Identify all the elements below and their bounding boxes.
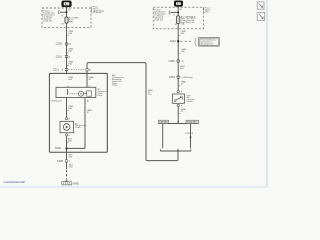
connector C448 (169, 60, 184, 63)
junction node (left) (66, 11, 68, 13)
relay coil circle (79, 91, 84, 96)
wire label ORN 640 (3) (68, 62, 73, 66)
zoom icon 1 (top-right) (257, 2, 264, 9)
svg-text:UB: UB (175, 24, 177, 26)
A/C compressor clutch box (60, 121, 74, 132)
wire label BLK 150 (68, 139, 73, 143)
reference dashes to note (180, 40, 192, 42)
page background (0, 0, 268, 188)
wire battery to fuse block (left) (66, 7, 68, 17)
relay dashed actuator line (69, 93, 77, 95)
relay resistor box (87, 91, 92, 96)
wire fuse to C100 (66, 23, 68, 73)
wire clutch to splice (66, 136, 68, 160)
clutch coil circle (63, 124, 70, 131)
svg-text:C1: C1 (173, 14, 175, 16)
terminal bracket at branch (left) (59, 11, 60, 14)
connector C210 (56, 55, 71, 58)
power distribution note box (199, 38, 220, 47)
wire label ORN 640 (1) (68, 31, 73, 35)
arrow down on right drop (189, 137, 191, 140)
connector C405 (57, 160, 70, 163)
ground bus lower (160, 150, 191, 152)
svg-text:A1: A1 (89, 69, 91, 72)
fuse block name label (left) (93, 7, 105, 15)
right drop wire (190, 124, 192, 149)
jumper wire relay coil to ground bus (long L wire) (87, 63, 178, 161)
jumper wire labels GRA 67 C-8 (148, 89, 153, 96)
svg-text:C211: C211 (53, 69, 59, 72)
fuse block side note text (right) (153, 10, 156, 18)
branch wire to fuse (left) (60, 11, 67, 13)
svg-text:A7: A7 (87, 99, 89, 102)
svg-text:B1: B1 (68, 10, 70, 12)
svg-text:C210: C210 (56, 55, 63, 58)
wire switch to connector bus (177, 107, 179, 124)
coil-wire join to splice (67, 147, 86, 149)
svg-text:40A: 40A (69, 20, 73, 23)
wire fuse to switch (177, 24, 179, 91)
wire to ground (part solid) (66, 162, 68, 169)
svg-text:Switch: Switch (187, 100, 193, 103)
svg-text:(Cell 10): (Cell 10) (43, 20, 52, 22)
wire label BLK 150 (below box) (68, 154, 73, 158)
fuse F2 (right, 10A) (177, 16, 180, 24)
svg-text:1: 1 (69, 161, 70, 163)
connector block left (hatched) (158, 120, 168, 123)
connector bus upper (158, 123, 198, 125)
terminal bracket (right) (169, 11, 170, 14)
connector C100 (56, 43, 71, 46)
ground G305 (62, 180, 72, 186)
svg-text:(C403 Gray): (C403 Gray) (181, 77, 192, 79)
battery feed box (left B+) (62, 1, 71, 7)
fuse value label (69, 17, 80, 24)
svg-text:Wiring Systems: Wiring Systems (200, 42, 213, 45)
junction node (right) (177, 11, 179, 13)
svg-text:(IP): (IP) (205, 12, 209, 14)
underhood fuse block (left dashed box) (42, 8, 91, 27)
svg-text:Clutch: Clutch (75, 126, 82, 129)
battery feed box (right B+) (174, 1, 182, 6)
fuse block name label (right) (205, 8, 211, 14)
in-box wire labels ORN 640 (68, 76, 94, 81)
wire label ORN 640 (right 1) (181, 31, 186, 35)
clutch name label (75, 122, 87, 129)
bottom page edge (0, 186, 268, 188)
branch wire to fuse (right) (170, 11, 178, 13)
relay name label (97, 88, 108, 97)
wire label GRA 67 (below switch) (181, 108, 186, 113)
clutch top pin (65, 118, 67, 120)
A/C compressor assembly box (49, 73, 107, 152)
left drop wire (162, 124, 164, 149)
svg-text:C405: C405 (57, 160, 64, 163)
connector block right (hatched) (186, 120, 199, 123)
svg-text:(Cell 11): (Cell 11) (155, 20, 163, 22)
wire C211 to assembly box (right pin riser) (86, 71, 88, 87)
wire battery to fuse (right) (177, 6, 179, 16)
relay switch bar (67, 89, 69, 95)
svg-text:FreeAutoMechanic.NET: FreeAutoMechanic.NET (4, 180, 26, 184)
switch pin B (177, 90, 179, 92)
splice S110 (177, 40, 179, 42)
wire label ORN 640 (right 3) (180, 66, 185, 70)
zoom icon 2 (top-right) (257, 12, 265, 20)
wire label ORN 640 (2) (68, 49, 73, 53)
coil wire labels GRA 67 (87, 109, 92, 114)
assembly name label (112, 74, 124, 87)
svg-text:C403: C403 (169, 76, 176, 79)
svg-text:S110: S110 (170, 40, 176, 43)
clutch bottom pin (65, 134, 67, 136)
wire label GRA 67 (right) (181, 80, 186, 85)
fuse block side note text (42, 11, 45, 19)
svg-text:(Printed): (Printed) (93, 11, 102, 14)
fuse block IP (right dashed box) (153, 7, 203, 29)
fuse F1 (left, A/C PUMP 40A) (65, 17, 68, 23)
wire to ground (dashed) (66, 170, 68, 179)
svg-text:B4: B4 (69, 44, 71, 46)
switch contacts and arm (174, 100, 176, 102)
arrowhead at bus junction (177, 121, 179, 123)
svg-text:C100: C100 (56, 43, 63, 46)
right page edge (266, 0, 268, 188)
svg-text:Relay: Relay (97, 95, 102, 97)
wire label ORN 640 (below relay) (68, 106, 73, 110)
relay coil ground wire (84, 98, 86, 149)
arrowhead up into ground bus (177, 149, 179, 152)
brace (195, 38, 197, 46)
svg-text:only): only) (112, 85, 117, 87)
connector C403 (169, 76, 193, 79)
wire relay to clutch (66, 98, 68, 118)
wire label BLK 150 (after C405) (69, 165, 74, 169)
switch pin A (177, 104, 179, 106)
svg-text:G405: G405 (73, 182, 80, 185)
svg-text:40: 40 (61, 16, 63, 18)
relay K1 box (56, 87, 96, 97)
svg-text:C4: C4 (181, 61, 183, 63)
splice S140 (65, 147, 67, 149)
fuse value label (right) (181, 15, 196, 25)
low pressure switch box (173, 94, 185, 103)
svg-text:S140: S140 (55, 147, 61, 150)
connector C211 pair (53, 68, 91, 71)
svg-text:B1: B1 (180, 9, 182, 11)
svg-text:C8 W/B-4 B7: C8 W/B-4 B7 (51, 100, 62, 102)
switch name label (187, 95, 196, 103)
svg-text:C448: C448 (169, 60, 176, 63)
wire label ORN 640 (right 2) (181, 49, 186, 53)
